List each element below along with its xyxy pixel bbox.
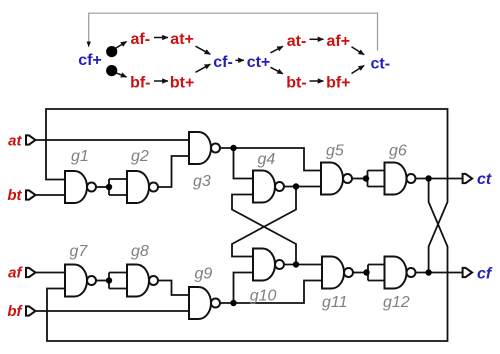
svg-text:g12: g12 [383, 294, 410, 311]
svg-text:ct: ct [477, 171, 492, 188]
svg-text:bf+: bf+ [326, 75, 350, 92]
svg-text:bf-: bf- [130, 75, 150, 92]
svg-text:bf: bf [7, 303, 23, 320]
svg-text:cf+: cf+ [78, 52, 102, 69]
svg-text:g10: g10 [250, 288, 277, 305]
svg-text:af: af [8, 265, 23, 282]
svg-text:bt-: bt- [286, 75, 306, 92]
svg-text:g4: g4 [258, 151, 276, 168]
svg-text:ct+: ct+ [247, 54, 271, 71]
svg-text:ct-: ct- [371, 56, 391, 73]
svg-text:bt: bt [7, 187, 22, 204]
svg-text:g6: g6 [389, 143, 407, 160]
svg-text:cf: cf [477, 266, 493, 283]
svg-text:g2: g2 [131, 148, 149, 165]
svg-text:g5: g5 [326, 143, 344, 160]
svg-text:g7: g7 [70, 243, 89, 260]
svg-text:at: at [8, 133, 22, 150]
svg-text:g1: g1 [71, 148, 89, 165]
svg-text:at-: at- [287, 33, 307, 50]
svg-text:af+: af+ [327, 33, 351, 50]
svg-text:g9: g9 [195, 266, 213, 283]
svg-text:af-: af- [131, 31, 151, 48]
svg-text:g3: g3 [193, 173, 211, 190]
svg-text:g11: g11 [322, 294, 348, 311]
svg-text:cf-: cf- [213, 54, 233, 71]
svg-text:at+: at+ [170, 31, 194, 48]
svg-text:bt+: bt+ [170, 75, 194, 92]
svg-text:g8: g8 [131, 243, 149, 260]
